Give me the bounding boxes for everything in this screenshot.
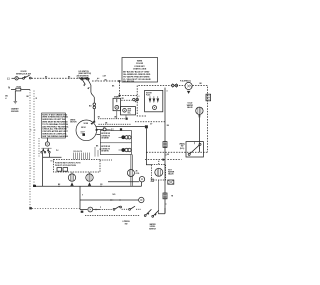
svg-text:V: V (199, 148, 201, 150)
svg-text:BU: BU (167, 125, 170, 127)
svg-text:4: 4 (167, 90, 168, 93)
svg-text:GND: GND (151, 181, 155, 183)
svg-text:OR: OR (100, 184, 103, 186)
svg-text:BK: BK (27, 96, 30, 98)
svg-text:GROUND: GROUND (11, 111, 19, 113)
svg-text:MOTOR SW: MOTOR SW (101, 146, 110, 148)
svg-text:SOL: SOL (128, 113, 131, 115)
svg-text:3-GY: 3-GY (103, 76, 108, 78)
svg-text:SEE THE WIRING DIAGRAM: SEE THE WIRING DIAGRAM (42, 135, 68, 138)
svg-text:1 2 3 4 5 6 7 8: 1 2 3 4 5 6 7 8 (73, 150, 82, 153)
svg-text:VALVE: VALVE (168, 173, 174, 176)
svg-text:BK: BK (96, 146, 99, 148)
svg-text:BK: BK (200, 83, 203, 85)
svg-text:CHART-CODE: CHART-CODE (133, 67, 147, 70)
svg-text:BR–BROWN: BR–BROWN (123, 81, 135, 83)
svg-text:4: 4 (5, 97, 6, 100)
svg-text:SPIN: SPIN (128, 109, 132, 111)
svg-text:BU: BU (89, 105, 92, 107)
svg-text:COLOR: COLOR (136, 63, 144, 65)
svg-text:5M·6M·RD: 5M·6M·RD (101, 151, 109, 153)
svg-text:SWITCH: SWITCH (149, 228, 157, 230)
svg-text:V: V (82, 195, 84, 197)
svg-text:TN: TN (171, 196, 174, 198)
svg-text:BK: BK (58, 184, 61, 186)
svg-text:P: P (100, 207, 102, 209)
svg-text:MOTOR: MOTOR (146, 92, 153, 94)
svg-text:W: W (36, 98, 38, 100)
svg-text:PLUG: PLUG (146, 94, 151, 96)
svg-text:2: 2 (139, 96, 140, 98)
svg-text:P-2: P-2 (56, 150, 58, 152)
svg-text:1M·2M·BK: 1M·2M·BK (101, 138, 109, 140)
svg-text:BK: BK (45, 76, 48, 78)
svg-text:VALVE: VALVE (187, 106, 193, 109)
svg-text:3M 5M: 3M 5M (81, 127, 86, 129)
svg-text:RD: RD (167, 154, 170, 156)
svg-text:COIL: COIL (136, 173, 140, 175)
svg-text:INTERLOCK SW: INTERLOCK SW (16, 73, 31, 75)
svg-text:2: 2 (97, 80, 98, 82)
svg-text:L1: L1 (7, 78, 10, 81)
svg-text:3M: 3M (98, 117, 101, 119)
svg-text:MOTOR SW: MOTOR SW (101, 133, 110, 135)
svg-text:MOTOR: MOTOR (70, 122, 77, 124)
svg-text:P6·BU P7·GY P8·GN P9·WH: P6·BU P7·GY P8·GN P9·WH (55, 165, 77, 167)
svg-text:(N.O.): (N.O.) (180, 148, 185, 150)
svg-text:N: N (8, 86, 10, 89)
svg-text:BK: BK (112, 86, 115, 88)
svg-text:1M: 1M (114, 117, 117, 119)
svg-text:SW: SW (125, 224, 128, 226)
svg-text:1M 2M: 1M 2M (84, 123, 89, 125)
svg-text:NO: NO (113, 194, 116, 196)
svg-text:GY: GY (150, 124, 153, 126)
